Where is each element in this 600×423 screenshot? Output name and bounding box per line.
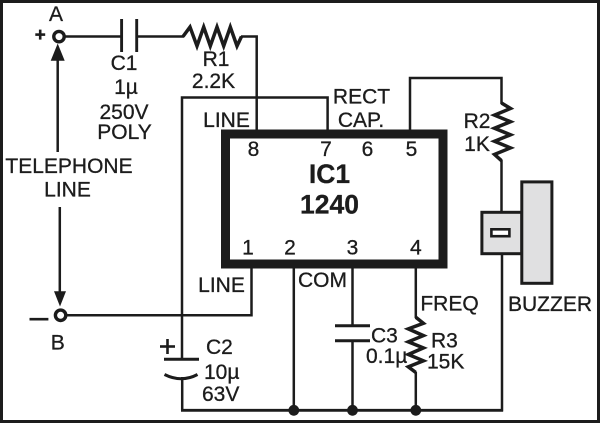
wire node B to IC pin 1 (67, 264, 252, 315)
svg-text:R3: R3 (431, 330, 458, 353)
svg-text:1µ: 1µ (114, 76, 138, 99)
svg-text:6: 6 (362, 138, 374, 161)
wire IC pin 2 to ground rail (293, 264, 296, 410)
svg-text:CAP.: CAP. (338, 109, 384, 132)
wire C2 to ground rail (181, 377, 184, 410)
node A (35, 3, 64, 42)
resistor R1 (183, 27, 242, 93)
telephone line down arrow (54, 207, 66, 307)
svg-text:A: A (49, 3, 63, 26)
ground rail wire (181, 409, 503, 412)
svg-text:1K: 1K (464, 133, 490, 156)
svg-text:2: 2 (284, 237, 296, 260)
svg-text:C1: C1 (111, 52, 138, 75)
wire IC pin 5 to R2 (410, 78, 502, 131)
junction pin 4 rail (410, 405, 421, 416)
junction pin 2 rail (288, 405, 299, 416)
svg-text:63V: 63V (202, 383, 239, 406)
svg-text:FREQ: FREQ (420, 293, 478, 316)
svg-text:2.2K: 2.2K (192, 70, 235, 93)
svg-text:BUZZER: BUZZER (508, 293, 592, 316)
wire node A to C1 (66, 35, 121, 38)
capacitor C2 (160, 336, 239, 406)
svg-text:1240: 1240 (300, 190, 359, 220)
svg-text:1: 1 (242, 237, 254, 260)
svg-text:4: 4 (410, 237, 422, 260)
wire buzzer to ground rail (501, 254, 504, 412)
svg-text:7: 7 (320, 138, 332, 161)
svg-text:POLY: POLY (97, 121, 151, 144)
svg-text:B: B (51, 332, 65, 355)
svg-text:3: 3 (347, 237, 359, 260)
wire C3 to ground rail (351, 341, 354, 410)
wire IC pin 3 to C3 (351, 264, 354, 326)
svg-text:8: 8 (248, 138, 260, 161)
svg-text:TELEPHONE: TELEPHONE (5, 155, 132, 178)
node B (30, 310, 66, 354)
net label RECT CAP. (333, 86, 390, 133)
svg-text:10µ: 10µ (204, 361, 239, 384)
wire C1 to R1 (138, 35, 184, 38)
wire R3 to ground rail (415, 372, 418, 410)
svg-text:COM: COM (298, 269, 347, 292)
buzzer BZ1 (482, 182, 592, 316)
wire telephone line to IC pin 7 (182, 98, 328, 361)
svg-text:C2: C2 (206, 336, 233, 359)
svg-text:LINE: LINE (198, 274, 245, 297)
telephone line up arrow (51, 44, 65, 153)
wire IC pin 4 to R3 (415, 264, 418, 318)
op IC1 1240 box (226, 134, 444, 264)
svg-text:RECT: RECT (333, 86, 390, 109)
junction pin 3 rail (347, 405, 358, 416)
wire R1 to IC pin 8 (241, 37, 257, 132)
svg-text:IC1: IC1 (309, 159, 350, 189)
svg-text:15K: 15K (427, 351, 464, 374)
svg-text:5: 5 (406, 138, 418, 161)
resistor R3 (408, 317, 464, 373)
capacitor C1 (97, 19, 151, 144)
svg-text:LINE: LINE (44, 179, 91, 202)
label TELEPHONE LINE (5, 155, 132, 202)
svg-text:R1: R1 (203, 48, 230, 71)
svg-text:R2: R2 (464, 110, 491, 133)
capacitor C3 (335, 325, 407, 369)
resistor R2 (464, 103, 511, 161)
svg-text:LINE: LINE (203, 109, 250, 132)
svg-text:0.1µ: 0.1µ (366, 345, 407, 368)
wire R2 to buzzer (500, 160, 503, 212)
